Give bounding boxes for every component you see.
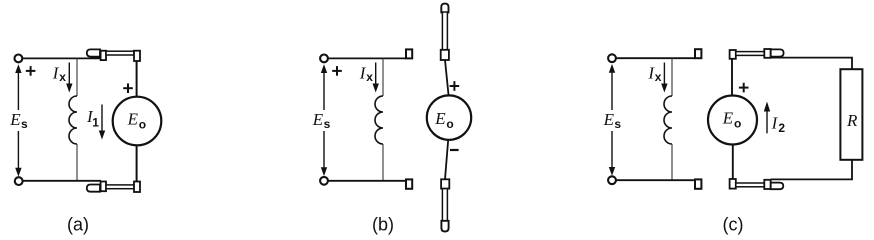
label Ix (a): [52, 64, 66, 85]
svg-text:I: I: [771, 114, 779, 133]
wire bottom (b): [328, 180, 406, 182]
wire EO bottom lead (c): [732, 145, 734, 180]
svg-text:E: E: [312, 110, 324, 129]
inductor coil (b): [375, 96, 383, 144]
switch top (c) clip 2: [764, 49, 770, 58]
svg-text:o: o: [446, 117, 453, 131]
terminal top-left (b): [320, 55, 328, 63]
label EO (b): [434, 109, 454, 131]
label ES (a): [9, 110, 28, 131]
arrow Ix (a): [66, 63, 72, 93]
wire inductor branch top (c): [671, 58, 673, 96]
plus EO (c): [739, 83, 749, 93]
wire inductor branch bottom (c): [671, 144, 673, 180]
svg-text:s: s: [614, 117, 621, 131]
open blade bottom (b): clip: [441, 179, 449, 188]
svg-text:E: E: [434, 109, 446, 128]
wire EO bottom lead (a): [136, 145, 138, 181]
arrow Ix (b): [373, 63, 379, 93]
wire inductor branch top (a): [76, 58, 78, 96]
terminal bottom-left (b): [320, 177, 328, 185]
svg-text:o: o: [139, 117, 146, 131]
arrow Ix (c): [661, 63, 667, 93]
label EO (c): [722, 109, 742, 131]
wire EO top lead (c): [731, 59, 733, 96]
arrow I1 (a): [99, 105, 105, 140]
open blade top (b): clip: [441, 50, 449, 60]
svg-text:o: o: [734, 117, 741, 131]
inductor coil (c): [664, 96, 672, 144]
arrow I2 (c): [764, 102, 770, 134]
wire EO bottom lead (b): [445, 140, 448, 180]
open clip square bottom (b): [406, 179, 412, 188]
plus source (b): [332, 66, 342, 76]
wire bottom (a): [23, 180, 101, 182]
svg-text:E: E: [9, 110, 21, 129]
wire inductor branch bottom (b): [382, 144, 384, 181]
label I2 (c): [771, 114, 786, 135]
plus EO (a): [123, 83, 133, 93]
open clip square top (c): [695, 49, 701, 58]
switch top (c) handle: [771, 49, 784, 56]
open blade bottom (b): body: [442, 189, 447, 221]
wire top (a): [23, 57, 101, 59]
switch top (a) clip 2: [134, 51, 140, 61]
open clip square bottom (c): [695, 179, 701, 188]
switch bottom (c) clip 2: [764, 180, 770, 189]
switch bottom (c) clip 1: [730, 179, 736, 189]
source ES double arrow (c): [609, 64, 615, 176]
wire EO top lead (b): [445, 60, 449, 96]
wire EO top lead (a): [136, 61, 138, 97]
svg-text:(a): (a): [67, 215, 89, 235]
source EO circle (c): [708, 96, 757, 145]
svg-text:R: R: [846, 111, 858, 130]
terminal top-left (c): [608, 54, 616, 62]
svg-text:1: 1: [92, 115, 99, 129]
svg-text:s: s: [324, 117, 331, 131]
switch top (c) clip 1: [730, 50, 736, 59]
switch bottom (c) handle: [771, 183, 784, 190]
terminal bottom-left (a): [15, 177, 23, 185]
wire bottom (c): [616, 179, 695, 181]
switch bottom (a) clip 1: [101, 182, 106, 192]
terminal bottom-left (c): [608, 176, 616, 184]
source EO circle (b): [427, 95, 471, 139]
label ES (b): [312, 110, 331, 131]
terminal top-left (a): [15, 55, 23, 63]
open blade top (b): body: [442, 12, 447, 50]
label Ix (c): [647, 64, 661, 85]
open clip square top (b): [406, 49, 412, 58]
open blade bottom (b): handle cap: [441, 221, 448, 232]
wire inductor branch bottom (a): [76, 144, 78, 181]
svg-text:2: 2: [778, 121, 785, 135]
wire bottom right loop (c): [771, 160, 852, 180]
source EO circle (a): [113, 97, 162, 146]
switch bottom (a) handle: [87, 185, 100, 192]
plus EO (b): [450, 81, 460, 91]
svg-text:(c): (c): [723, 215, 744, 235]
switch bottom (c) blade: [736, 183, 765, 187]
switch bottom (a) clip 2: [134, 182, 140, 193]
open blade top (b): handle cap: [441, 4, 448, 13]
svg-text:E: E: [603, 110, 615, 129]
wire top (b): [328, 57, 406, 59]
wire top right loop (c): [771, 58, 852, 70]
source ES double arrow (a): [15, 64, 21, 176]
plus source (a): [26, 66, 36, 76]
minus EO (b): [450, 149, 459, 151]
svg-text:x: x: [655, 70, 662, 84]
svg-text:x: x: [59, 70, 66, 84]
inductor coil (a): [69, 96, 77, 144]
resistor R (c): [840, 69, 862, 160]
switch top (c) blade: [736, 52, 765, 56]
switch bottom (a) blade: [106, 185, 134, 189]
label I1 (a): [86, 107, 99, 129]
svg-text:x: x: [366, 70, 373, 84]
switch top (a) clip 1: [101, 51, 106, 60]
label ES (c): [603, 110, 622, 131]
label Ix (b): [359, 64, 373, 85]
switch top (a) blade: [106, 51, 134, 55]
label EO (a): [127, 110, 147, 132]
svg-text:E: E: [127, 110, 139, 129]
source ES double arrow (b): [321, 64, 327, 176]
svg-text:s: s: [21, 117, 28, 131]
wire inductor branch top (b): [382, 58, 384, 96]
switch top (a) closed: handle: [87, 49, 100, 56]
svg-text:(b): (b): [372, 215, 394, 235]
wire top (c): [616, 57, 695, 59]
svg-text:E: E: [722, 109, 734, 128]
